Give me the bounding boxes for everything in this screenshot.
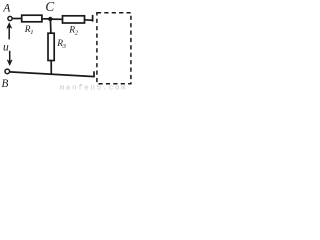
bottom wire B to port xyxy=(10,72,95,77)
wire R1 to node C xyxy=(42,18,50,20)
wire R3 to bottom rail xyxy=(50,61,52,75)
resistor R2 xyxy=(63,16,85,37)
svg-text:3: 3 xyxy=(62,43,67,50)
voltage arrow up xyxy=(7,23,12,39)
svg-text:manfen5.com: manfen5.com xyxy=(60,85,128,92)
node A xyxy=(2,2,12,21)
resistor R3 xyxy=(48,33,67,60)
wire C to R2 xyxy=(50,18,62,20)
svg-text:C: C xyxy=(45,0,54,14)
terminal tick bottom xyxy=(93,71,95,77)
voltage arrow down xyxy=(7,51,12,65)
wire C down to R3 xyxy=(49,19,52,33)
node B xyxy=(2,69,10,90)
terminal tick top xyxy=(92,15,94,22)
wire A to R1 xyxy=(12,18,22,20)
svg-text:u: u xyxy=(3,41,9,53)
wire R2 to port xyxy=(85,19,94,22)
node C xyxy=(45,0,54,21)
dashed network box xyxy=(97,13,131,84)
svg-text:A: A xyxy=(2,2,11,15)
svg-text:B: B xyxy=(2,78,9,90)
resistor R1 xyxy=(22,15,42,36)
svg-text:1: 1 xyxy=(30,29,33,36)
svg-text:2: 2 xyxy=(75,29,79,36)
